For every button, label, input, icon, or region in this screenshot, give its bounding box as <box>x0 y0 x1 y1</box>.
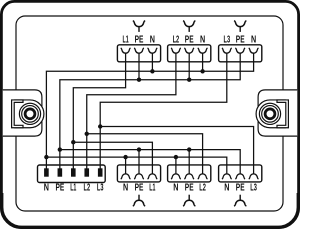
terminal block U2 (L2 PE N) <box>168 45 211 62</box>
wire block U2 PE stub <box>188 62 190 80</box>
svg-text:PE: PE <box>185 183 194 194</box>
junction N riser / branch <box>44 155 48 159</box>
svg-text:L3: L3 <box>97 183 104 194</box>
latch bracket <box>277 100 288 128</box>
latch housing <box>258 90 297 136</box>
svg-text:L1: L1 <box>123 35 129 46</box>
junction PE riser / branch <box>58 147 62 151</box>
wire N bus: feed N up and across to top blocks <box>46 62 253 169</box>
svg-text:L2: L2 <box>84 183 91 194</box>
latch barrel <box>14 100 44 128</box>
junction L2 riser / branch <box>85 132 89 136</box>
wire U5 N stub <box>175 157 177 165</box>
terminal block U6 (N PE L3) <box>219 165 262 182</box>
load connector symbol (bottom) <box>133 200 145 206</box>
svg-text:PE: PE <box>185 35 194 46</box>
feed terminal pin L2 <box>84 168 89 176</box>
box inner lid outline <box>16 16 283 211</box>
svg-text:N: N <box>173 183 178 194</box>
wire L2 feed to top block U2 <box>87 62 176 169</box>
feed terminal pin L3 <box>98 168 103 176</box>
wire U4 N stub <box>125 157 127 165</box>
svg-text:L1: L1 <box>149 183 155 194</box>
terminal block U4 (N PE L1) <box>117 165 160 182</box>
terminal block U5 (N PE L2) <box>168 165 211 182</box>
junction N branch / U5 N <box>174 155 178 159</box>
terminal contact U4 N <box>121 174 131 179</box>
junction L1 riser / branch <box>71 140 75 144</box>
wire PE branch across bottom blocks <box>60 150 240 165</box>
terminal contact U2 N <box>198 48 208 53</box>
terminal contact U1 N <box>148 48 158 53</box>
terminal contact U1 L1 <box>121 48 131 53</box>
load connector symbol (bottom) <box>183 200 195 206</box>
right sealing latch <box>256 90 297 136</box>
terminal block U1 (L1 PE N) <box>117 45 160 62</box>
terminal contact U5 PE <box>184 174 194 179</box>
feed terminal pin PE <box>58 168 63 176</box>
wire L2 branch to bottom block U5 <box>87 134 203 165</box>
junction N branch / U4 N <box>123 155 127 159</box>
latch housing <box>3 90 42 136</box>
load connector symbol (top) <box>133 21 145 27</box>
svg-text:N: N <box>150 35 155 46</box>
feed terminal pin N <box>44 168 49 176</box>
terminal contact U6 N <box>222 174 232 179</box>
svg-text:L2: L2 <box>199 183 206 194</box>
wire PE bus: feed PE up and across to top blocks <box>60 62 240 169</box>
wire block U1 PE stub <box>138 62 140 80</box>
terminal contact U3 N <box>249 48 259 53</box>
svg-text:PE: PE <box>236 183 245 194</box>
svg-text:N: N <box>251 35 256 46</box>
junction L3 riser / branch <box>98 124 102 128</box>
left sealing latch <box>3 90 44 136</box>
wire block U1 N stub <box>151 62 153 72</box>
terminal contact U6 L3 <box>249 174 259 179</box>
svg-text:N: N <box>200 35 205 46</box>
terminal contact U4 L1 <box>148 174 158 179</box>
feed terminal pin L1 <box>71 168 76 176</box>
terminal contact U4 PE <box>134 174 144 179</box>
wire N branch across bottom blocks <box>46 157 226 165</box>
wire U4 PE stub <box>138 150 140 165</box>
wire L1 feed to top block U1 <box>73 62 125 169</box>
wire L1 branch to bottom block U4 <box>73 142 152 165</box>
junction PE bus / U2 PE <box>187 78 191 82</box>
load connector symbol (top) <box>183 21 195 27</box>
junction PE bus / U1 PE <box>137 78 141 82</box>
latch screw rings <box>259 103 280 124</box>
terminal block U3 (L3 PE N) <box>219 45 262 62</box>
svg-text:N: N <box>44 183 49 194</box>
box bottom wall (thicker) <box>2 193 299 227</box>
terminal contact U3 L3 <box>222 48 232 53</box>
terminal contact U5 L2 <box>198 174 208 179</box>
svg-text:L1: L1 <box>70 183 76 194</box>
terminal contact U3 PE <box>235 48 245 53</box>
feed terminal block X1 (N PE L1 L2 L3) <box>38 165 106 183</box>
latch bracket <box>12 100 23 128</box>
svg-text:N: N <box>123 183 128 194</box>
terminal contact U5 N <box>171 174 181 179</box>
junction N bus / U2 N <box>200 69 204 73</box>
svg-text:PE: PE <box>135 35 144 46</box>
load connector symbol (bottom) <box>234 200 246 206</box>
terminal contact U2 PE <box>184 48 194 53</box>
svg-text:PE: PE <box>236 35 245 46</box>
svg-text:PE: PE <box>135 183 144 194</box>
junction N bus / U1 N <box>150 69 154 73</box>
wire L3 feed to top block U3 <box>100 62 227 169</box>
svg-text:L3: L3 <box>250 183 257 194</box>
junction PE branch / U4 PE <box>137 147 141 151</box>
svg-text:N: N <box>224 183 229 194</box>
terminal contact U1 PE <box>134 48 144 53</box>
wire block U2 N stub <box>202 62 204 72</box>
load connector symbol (top) <box>234 21 246 27</box>
wire L3 branch to bottom block U6 <box>100 127 253 165</box>
svg-text:L3: L3 <box>224 35 231 46</box>
latch barrel <box>256 100 286 128</box>
terminal contact U6 PE <box>235 174 245 179</box>
wire U5 PE stub <box>188 150 190 165</box>
latch screw rings <box>19 103 40 124</box>
svg-text:L2: L2 <box>173 35 180 46</box>
svg-text:PE: PE <box>56 183 65 194</box>
terminal contact U2 L2 <box>171 48 181 53</box>
junction PE branch / U5 PE <box>187 147 191 151</box>
